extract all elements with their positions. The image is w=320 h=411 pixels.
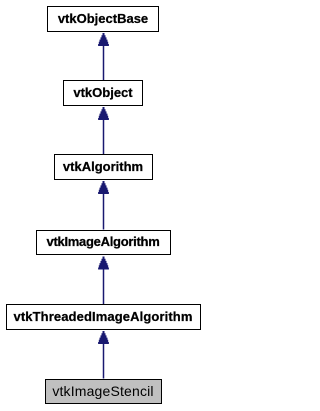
inheritance arrow vtkAlgorithm -> vtkObject — [98, 107, 109, 154]
class box vtkObjectBase — [47, 6, 159, 32]
class box vtkImageStencil (current class, grey) — [45, 379, 162, 405]
inheritance arrow vtkImageStencil -> vtkThreadedImageAlgorithm — [98, 331, 109, 379]
inheritance arrow vtkObject -> vtkObjectBase — [98, 33, 109, 80]
class box vtkObject — [63, 80, 143, 106]
inheritance arrow vtkThreadedImageAlgorithm -> vtkImageAlgorithm — [98, 257, 109, 305]
inheritance arrow vtkImageAlgorithm -> vtkAlgorithm — [98, 181, 109, 230]
class box vtkThreadedImageAlgorithm — [6, 304, 201, 330]
class box vtkImageAlgorithm — [36, 230, 171, 256]
class box vtkAlgorithm — [54, 154, 153, 180]
